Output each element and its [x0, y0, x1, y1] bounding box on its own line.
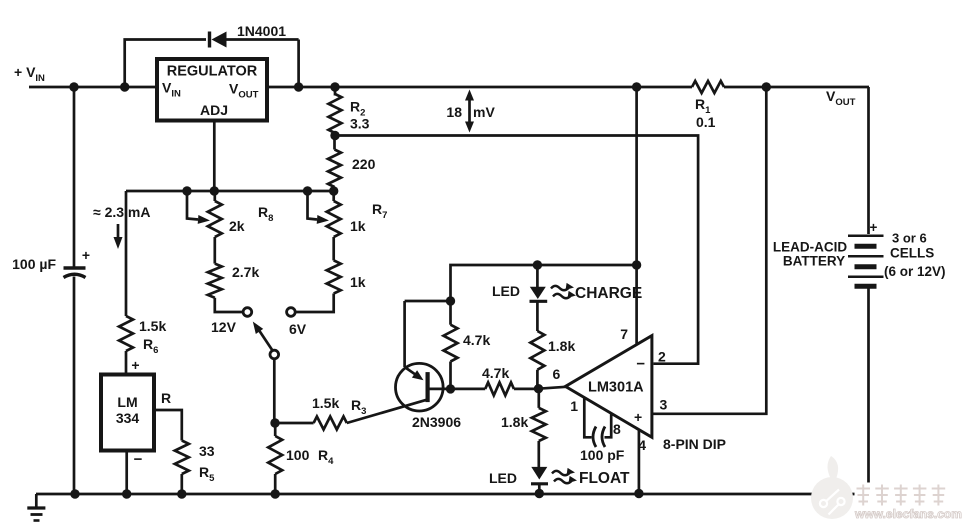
wire: R8 top stub — [213, 191, 216, 201]
svg-text:1.5k: 1.5k — [139, 318, 166, 334]
node: emitter tee junction — [446, 296, 455, 305]
svg-text:(6 or 12V): (6 or 12V) — [884, 264, 946, 279]
node: pin6 junction — [534, 384, 543, 393]
label 1k upper — [350, 218, 366, 234]
wire: top rail right of R1 — [724, 86, 869, 89]
node: collector junction — [446, 384, 455, 393]
label 12V — [211, 319, 237, 335]
arrows: float LED emission — [552, 468, 577, 483]
label R3 — [351, 397, 366, 417]
transistor Q1 2N3906 — [347, 363, 451, 423]
label 100uF — [12, 256, 56, 272]
resistor R4 100 — [268, 423, 282, 494]
label LED charge — [492, 283, 520, 299]
watermark elecfans logo — [811, 456, 962, 522]
label REGULATOR — [167, 64, 258, 80]
svg-text:LM: LM — [117, 394, 137, 410]
wire: pin4 ground lead — [638, 430, 641, 494]
potentiometer R8 2k element — [208, 201, 222, 237]
node: ground / LM334 junction — [122, 489, 131, 498]
svg-text:3: 3 — [660, 397, 668, 413]
label LED float — [489, 470, 517, 486]
wire: 2.7k to 12V contact — [215, 298, 243, 312]
svg-text:1.8k: 1.8k — [548, 338, 575, 354]
svg-text:FLOAT: FLOAT — [579, 470, 630, 487]
svg-text:1: 1 — [570, 398, 578, 414]
svg-text:220: 220 — [352, 156, 376, 172]
node: top rail / pin3 sense junction — [762, 82, 771, 91]
svg-text:4.7k: 4.7k — [463, 332, 490, 348]
svg-text:LEAD-ACID: LEAD-ACID — [773, 240, 847, 255]
label 8-PIN DIP — [663, 436, 726, 452]
wire: LM334 branch riser — [125, 191, 128, 316]
pin 8 lead — [605, 414, 612, 437]
label BATTERY — [783, 254, 845, 269]
node: mid rail R7 wiper junction — [303, 186, 312, 195]
node: regulator output / diode junction — [294, 82, 303, 91]
node: Vin / diode bypass junction — [120, 82, 129, 91]
wire: Vout top corner to battery + — [867, 87, 870, 234]
svg-text:33: 33 — [199, 443, 215, 459]
node: ground / R4 junction — [271, 489, 280, 498]
svg-text:REGULATOR: REGULATOR — [167, 64, 258, 80]
resistor R6 1.5k — [119, 316, 133, 351]
resistor 220 — [328, 136, 341, 192]
node: R3/R4/switch junction — [270, 418, 279, 427]
arrow: 2.3mA bias current — [114, 224, 123, 249]
node: R2/220 junction (pin2 tap) — [330, 131, 339, 140]
label regulator ADJ pin — [200, 102, 228, 118]
label 1.5k (R3) — [312, 395, 339, 411]
resistor 4.7k vertical — [444, 301, 458, 389]
svg-text:R: R — [161, 390, 171, 406]
label 33 — [199, 443, 215, 459]
svg-text:334: 334 — [116, 410, 140, 426]
resistor 4.7k horizontal — [451, 382, 539, 395]
node: ground / LED float junction — [535, 489, 544, 498]
wire: diode bypass right riser — [297, 40, 300, 88]
node: ground / R5 junction — [177, 489, 186, 498]
potentiometer R7 1k element — [327, 201, 341, 237]
resistor R1 (in top rail) — [692, 81, 724, 93]
svg-text:www.elecfans.com: www.elecfans.com — [854, 507, 962, 521]
label 6V — [289, 321, 307, 337]
svg-text:−: − — [636, 356, 645, 373]
wire: pole to R3/R4 node — [273, 359, 276, 423]
resistor 2.7k — [208, 264, 222, 298]
resistor 1.8k upper — [530, 331, 544, 389]
wire: +Vin input lead — [29, 86, 157, 89]
label +Vin — [14, 64, 45, 84]
label 1k lower — [350, 274, 366, 290]
arrows: charge LED emission — [551, 283, 576, 298]
LED charge — [530, 265, 548, 331]
resistor 1.8k lower — [532, 389, 546, 467]
label (6 or 12V) — [884, 264, 946, 279]
LM334 U3 box — [101, 375, 154, 451]
svg-text:2N3906: 2N3906 — [412, 414, 461, 430]
ground symbol — [27, 494, 45, 521]
svg-text:6: 6 — [553, 366, 561, 382]
label LM301A — [588, 380, 644, 396]
label 1.8k lower — [501, 414, 528, 430]
switch contact 6V — [287, 308, 296, 317]
op-amp U1 LM301A body — [565, 336, 652, 438]
label pin 2 — [658, 349, 666, 365]
wire: R7 top stub — [332, 191, 335, 201]
switch arm with arrow — [253, 322, 273, 351]
svg-text:−: − — [134, 451, 143, 468]
svg-text:BATTERY: BATTERY — [783, 254, 845, 269]
svg-text:mV: mV — [473, 104, 495, 120]
label 4.7k vertical — [463, 332, 490, 348]
LED float — [531, 467, 548, 494]
wire: R5 to ground — [180, 474, 183, 494]
label pin 8 — [613, 421, 621, 437]
label pin 4 — [638, 437, 646, 453]
label CELLS — [890, 246, 934, 261]
node: mid rail R8 wiper junction — [182, 186, 191, 195]
label non-inverting + — [634, 409, 642, 425]
label pin 3 — [660, 397, 668, 413]
label LM334 - pin — [134, 451, 143, 468]
svg-text:1k: 1k — [350, 218, 366, 234]
label R2 — [350, 99, 365, 119]
label R5 — [199, 464, 215, 484]
svg-text:+: + — [634, 409, 642, 425]
node: mid rail ADJ junction — [210, 186, 219, 195]
node: Vin / filter cap junction — [69, 82, 78, 91]
svg-text:+: + — [131, 357, 139, 373]
capacitor C1 100uF — [64, 268, 86, 278]
label 2k — [229, 218, 245, 234]
node: ground / cap junction — [70, 489, 79, 498]
label LM334 — [116, 394, 140, 426]
svg-text:0.1: 0.1 — [696, 114, 716, 130]
wire: LM334 minus pin to ground — [125, 451, 128, 495]
label 4.7k horizontal — [482, 365, 509, 381]
wire: filter cap to ground — [73, 277, 76, 495]
wire: ADJ lead — [213, 121, 216, 192]
svg-text:LED: LED — [489, 470, 517, 486]
label 3 or 6 — [892, 231, 927, 246]
wire: R8 to 2.7k — [213, 237, 216, 264]
regulator U2 box — [157, 59, 267, 121]
wire: R7 to 1k — [332, 237, 335, 260]
resistor R3 1.5k — [275, 417, 347, 430]
wire: V+ mid rail — [451, 265, 637, 301]
label R1 — [695, 96, 711, 116]
svg-text:100: 100 — [286, 447, 310, 463]
label 3.3 — [350, 116, 370, 132]
wire: mid ADJ rail — [126, 190, 335, 193]
label 220 — [352, 156, 376, 172]
arrow: R8 wiper — [187, 191, 210, 224]
label 1.5k (R6) — [139, 318, 166, 334]
switch contact 12V — [243, 308, 252, 317]
node: top rail / comparator supply junction — [632, 82, 641, 91]
label Vout — [826, 88, 856, 108]
label cap polarity + — [82, 247, 90, 263]
label R8 — [258, 204, 273, 224]
label pin 7 — [620, 326, 628, 342]
label 0.1 — [696, 114, 716, 130]
capacitor 100pF — [593, 427, 605, 448]
svg-text:LED: LED — [492, 283, 520, 299]
arrow: R7 wiper — [308, 191, 330, 224]
label regulator Vin pin — [162, 80, 181, 100]
svg-text:8: 8 — [613, 421, 621, 437]
svg-text:1.8k: 1.8k — [501, 414, 528, 430]
battery BT1 plates — [848, 236, 884, 286]
label R pin — [161, 390, 171, 406]
label LM334 + pin — [131, 357, 139, 373]
label ~2.3 mA — [93, 204, 150, 220]
label inverting - — [636, 356, 645, 373]
label 2N3906 — [412, 414, 461, 430]
label pin 1 — [570, 398, 578, 414]
wire: bottom ground rail — [36, 493, 869, 496]
svg-text:8-PIN DIP: 8-PIN DIP — [663, 436, 726, 452]
node: ground / pin4 junction — [634, 489, 643, 498]
label CHARGE — [575, 285, 642, 302]
label regulator Vout pin — [229, 81, 259, 101]
label 1.8k upper — [548, 338, 575, 354]
svg-text:1k: 1k — [350, 274, 366, 290]
svg-text:2.7k: 2.7k — [232, 264, 259, 280]
label R6 — [143, 336, 158, 356]
svg-text:18: 18 — [446, 104, 462, 120]
label pin 6 — [553, 366, 561, 382]
node: top rail / R2 junction — [330, 82, 339, 91]
wire: R6 to LM334 — [125, 351, 128, 375]
svg-text:100 µF: 100 µF — [12, 256, 56, 272]
label LEAD-ACID — [773, 240, 847, 255]
label 18 — [446, 104, 462, 120]
svg-text:+: + — [870, 220, 878, 235]
svg-text:100 pF: 100 pF — [580, 447, 625, 463]
wire: emitter lead — [405, 301, 451, 367]
node: mid rail / LED charge junction — [533, 260, 542, 269]
wire: pin3 sense run — [652, 87, 766, 414]
svg-text:3 or 6: 3 or 6 — [892, 231, 927, 246]
wire: pin7 supply riser — [635, 87, 638, 344]
svg-text:+: + — [82, 247, 90, 263]
label R7 — [372, 201, 387, 221]
svg-text:CELLS: CELLS — [890, 246, 934, 261]
arrow: 18mV span — [465, 90, 474, 133]
switch pole contact — [270, 350, 279, 359]
wire: battery - to bottom rail — [867, 289, 870, 495]
label R4 — [318, 447, 334, 467]
svg-text:4.7k: 4.7k — [482, 365, 509, 381]
svg-text:1.5k: 1.5k — [312, 395, 339, 411]
node: mid rail / pin7 riser junction — [632, 260, 641, 269]
wire: top rail regulator output — [267, 86, 692, 89]
svg-text:2: 2 — [658, 349, 666, 365]
label battery + — [870, 220, 878, 235]
svg-text:≈ 2.3 mA: ≈ 2.3 mA — [93, 204, 150, 220]
label 2.7k — [232, 264, 259, 280]
node: mid rail / 220 ohm junction — [329, 186, 338, 195]
resistor 1k lower — [327, 260, 341, 293]
svg-text:2k: 2k — [229, 218, 245, 234]
wire: 6V contact to 1k — [295, 294, 333, 313]
label FLOAT — [579, 470, 630, 487]
wire: diode bypass left riser — [125, 40, 206, 88]
wire: pin6 lead to op-amp — [539, 387, 567, 389]
wire: LM334 R pin lead — [154, 410, 182, 441]
svg-text:CHARGE: CHARGE — [575, 285, 642, 302]
svg-text:1N4001: 1N4001 — [237, 23, 286, 39]
svg-text:LM301A: LM301A — [588, 380, 644, 396]
diode D1 1N4001 symbol — [210, 32, 299, 48]
wire: filter cap riser — [73, 87, 76, 268]
label 100 — [286, 447, 310, 463]
wire: pin2 feedback run — [335, 136, 698, 364]
resistor R2 3.3 — [329, 87, 342, 136]
svg-text:7: 7 — [620, 326, 628, 342]
label 1N4001 — [237, 23, 286, 39]
svg-text:6V: 6V — [289, 321, 307, 337]
label mV — [473, 104, 495, 120]
pin 1 lead — [584, 399, 591, 438]
svg-text:ADJ: ADJ — [200, 102, 228, 118]
label 100 pF — [580, 447, 625, 463]
resistor R5 33 — [175, 441, 189, 475]
svg-text:12V: 12V — [211, 319, 237, 335]
svg-text:3.3: 3.3 — [350, 116, 370, 132]
